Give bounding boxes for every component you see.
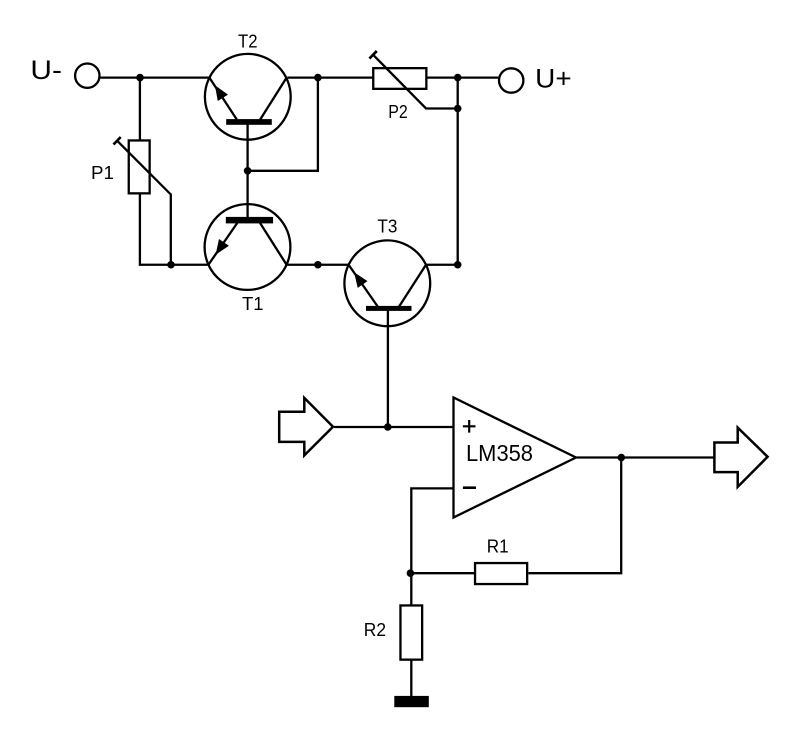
svg-text:P2: P2: [388, 102, 408, 122]
svg-text:U-: U-: [30, 55, 61, 85]
svg-text:P1: P1: [91, 163, 114, 183]
svg-text:T2: T2: [238, 31, 258, 51]
svg-text:R2: R2: [364, 620, 386, 640]
svg-text:T1: T1: [242, 294, 264, 314]
svg-text:U+: U+: [535, 63, 572, 93]
svg-text:R1: R1: [487, 536, 509, 556]
svg-text:T3: T3: [377, 217, 397, 237]
svg-text:LM358: LM358: [466, 440, 533, 466]
